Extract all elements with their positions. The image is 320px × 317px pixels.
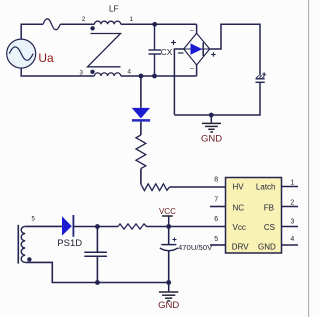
pin 2 stub bbox=[282, 206, 299, 208]
svg-text:3: 3 bbox=[290, 219, 294, 226]
choke core Z bbox=[88, 34, 121, 67]
svg-text:5: 5 bbox=[214, 236, 218, 243]
svg-text:3: 3 bbox=[79, 69, 83, 76]
polarity dot top winding bbox=[90, 26, 94, 30]
svg-text:FB: FB bbox=[264, 203, 274, 212]
svg-text:6: 6 bbox=[214, 216, 218, 223]
svg-text:DRV: DRV bbox=[232, 242, 249, 251]
wire bottom left from source bbox=[21, 68, 94, 76]
junction VCC node bbox=[166, 224, 171, 229]
svg-text:1: 1 bbox=[290, 180, 294, 187]
wire VCC node down bbox=[168, 227, 170, 245]
wire top left from source bbox=[21, 24, 43, 39]
resistor R2 horizontal bbox=[141, 184, 170, 191]
wire fuse to choke pin2 bbox=[60, 23, 94, 25]
svg-text:GND: GND bbox=[158, 300, 179, 311]
pin 5 stub bbox=[210, 244, 226, 246]
svg-text:7: 7 bbox=[214, 196, 218, 203]
svg-text:2: 2 bbox=[290, 200, 294, 207]
svg-text:Vcc: Vcc bbox=[233, 223, 246, 232]
junction PS1D node bbox=[95, 224, 100, 229]
frame border right bbox=[308, 0, 310, 317]
wire PS1D to junction bbox=[73, 226, 118, 228]
pin 7 stub bbox=[210, 206, 226, 208]
diode D1 bbox=[140, 76, 142, 108]
transformer T1 core bbox=[17, 225, 19, 264]
capacitor C2 electrolytic bbox=[256, 72, 267, 82]
ground GND2 bbox=[168, 283, 170, 292]
svg-text:Ua: Ua bbox=[38, 51, 54, 65]
svg-text:GND: GND bbox=[258, 242, 276, 251]
wire choke pin4 to bridge bottom bbox=[121, 75, 197, 77]
bridge rectifier bbox=[184, 24, 210, 76]
svg-text:~: ~ bbox=[190, 26, 195, 35]
svg-text:LF: LF bbox=[109, 4, 119, 14]
svg-text:8: 8 bbox=[214, 176, 218, 183]
polarity dot bottom winding bbox=[90, 70, 94, 74]
diode PS1D bbox=[62, 216, 72, 235]
wire bridge left corner to vertical drop bbox=[174, 49, 183, 115]
resistor R1 vertical bbox=[136, 135, 146, 169]
svg-text:GND: GND bbox=[201, 133, 222, 144]
wire C3 to bottom rail bbox=[168, 251, 170, 283]
junction bottom rail GND tap bbox=[166, 280, 171, 285]
capacitor CX1 bbox=[149, 24, 162, 76]
svg-text:1: 1 bbox=[129, 16, 133, 23]
pin 4 stub bbox=[282, 244, 299, 246]
junction ground tap bbox=[209, 113, 214, 118]
svg-text:CX: CX bbox=[161, 47, 173, 57]
pin 3 stub bbox=[282, 226, 299, 228]
bridge mark plus upper-left bbox=[171, 40, 176, 45]
capacitor C3 470U/50V bbox=[160, 238, 178, 251]
svg-text:NC: NC bbox=[233, 203, 245, 212]
svg-text:Latch: Latch bbox=[256, 183, 276, 192]
svg-text:4: 4 bbox=[290, 236, 294, 243]
junction C4 bottom bbox=[95, 280, 100, 285]
svg-text:PS1D: PS1D bbox=[57, 238, 82, 249]
wire R3 to chip pin6 bbox=[147, 226, 226, 228]
wire transformer bottom to rail bbox=[25, 262, 169, 282]
AC source Ua bbox=[7, 39, 36, 68]
fuse F1 bbox=[43, 19, 60, 30]
wire R2 to chip pin8 bbox=[170, 186, 226, 188]
resistor R3 horizontal bbox=[118, 224, 147, 229]
wire choke pin1 to bridge top bbox=[121, 23, 197, 25]
transformer T1 winding bbox=[21, 226, 25, 262]
svg-text:470U/50V: 470U/50V bbox=[178, 243, 213, 252]
transformer phase dot bbox=[27, 257, 31, 261]
bridge mark plus right bbox=[211, 52, 216, 57]
ground GND1 bbox=[210, 115, 212, 123]
wire transformer to diode PS1D bbox=[25, 225, 62, 227]
svg-text:VCC: VCC bbox=[159, 207, 176, 216]
wire R1 to corner bbox=[140, 169, 142, 185]
svg-text:5: 5 bbox=[32, 217, 36, 223]
pin 1 stub bbox=[282, 186, 299, 188]
VCC power symbol bbox=[162, 215, 173, 217]
capacitor C4 bbox=[84, 227, 107, 283]
junction CX1 top bbox=[152, 22, 157, 27]
choke LF top winding bbox=[94, 21, 120, 24]
wire C2 down and to ground run bbox=[174, 82, 260, 115]
junction CX1 bottom bbox=[152, 74, 157, 79]
svg-text:~: ~ bbox=[190, 64, 195, 73]
bridge mark minus left bbox=[178, 52, 184, 54]
wire bridge + output to top right bbox=[210, 24, 260, 75]
op IC U1 body bbox=[226, 178, 282, 254]
svg-text:HV: HV bbox=[233, 183, 245, 192]
svg-text:4: 4 bbox=[127, 69, 131, 76]
svg-text:2: 2 bbox=[82, 16, 86, 23]
svg-text:CS: CS bbox=[264, 223, 275, 232]
choke LF bottom winding bbox=[94, 73, 120, 76]
junction diode tap bbox=[139, 74, 144, 79]
